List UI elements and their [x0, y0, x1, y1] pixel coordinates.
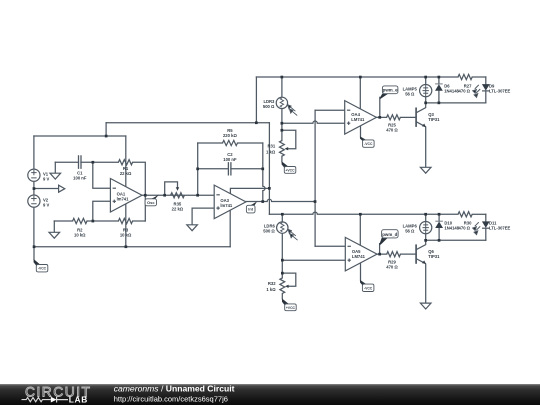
wire R5 row left lead [198, 142, 223, 144]
wire riser x256.4 rail to top rail [255, 77, 257, 123]
logo diode [51, 397, 57, 403]
photoresistor LDR6 [277, 222, 288, 233]
resistor R2 [73, 218, 87, 223]
wire bottom rail y246.7 [34, 246, 230, 248]
diode D6 [435, 84, 443, 91]
lamp LAMP6 [420, 222, 432, 234]
wire D6 bottom lead [438, 91, 440, 103]
wire OA4 output to R25 [376, 116, 386, 118]
op-amp OA5 [345, 237, 377, 271]
wire OA3 output with hop over x269.4 [246, 199, 315, 201]
svg-text:500 Ω: 500 Ω [263, 104, 275, 109]
svg-text:470 Ω: 470 Ω [459, 88, 471, 93]
svg-text:Int: Int [248, 207, 254, 212]
wire R31 bottom stub [281, 156, 283, 162]
wire top rail y77 [256, 76, 458, 78]
wire R31 wiper loop [282, 130, 296, 149]
op-amp OA1 [110, 179, 142, 213]
wire C2 row left [198, 168, 229, 170]
wire feedback left column x197.7 [197, 143, 199, 195]
wire pwm_e tail [379, 97, 381, 117]
flag +VCC at R31 [282, 161, 289, 167]
wire OA5 V+ pin [359, 214, 361, 245]
wire R3 right lead [133, 220, 146, 222]
resistor R3 [118, 218, 132, 223]
wire D6 column [438, 77, 440, 84]
svg-text:TIP31: TIP31 [428, 254, 440, 259]
transistor Q3 [415, 108, 417, 127]
wire OA5 inverting input [315, 245, 345, 247]
wire OA1 inverting input [93, 162, 111, 188]
wire V1-V2 link [33, 181, 35, 195]
wire C1 ground stem [54, 162, 56, 173]
flag -VCC at V2 [34, 259, 41, 266]
svg-text:10 kΩ: 10 kΩ [74, 232, 86, 237]
resistor R5 [223, 140, 238, 145]
svg-text:cameronms / Unnamed Circuit: cameronms / Unnamed Circuit [114, 384, 235, 394]
wire R32 bottom stub [281, 294, 283, 299]
net flag Int [250, 201, 258, 205]
wire OA4 V+ pin [359, 77, 361, 109]
wire lamp3 bottom lead [425, 97, 427, 103]
wire C1 right to R1 [81, 161, 118, 163]
R32 wiper arrowhead [285, 285, 289, 288]
svg-text:pwm_d: pwm_d [382, 232, 397, 237]
svg-text:1N4148: 1N4148 [444, 226, 459, 231]
resistor R25 [387, 115, 401, 120]
net flag pwm_d [379, 238, 388, 245]
svg-text:1 kΩ: 1 kΩ [266, 287, 276, 292]
svg-text:-VCC: -VCC [364, 286, 373, 290]
svg-text:+VCC: +VCC [285, 168, 295, 172]
R31 wiper arrowhead [285, 147, 289, 150]
svg-text:LM741: LM741 [352, 254, 366, 259]
voltage source V2 [28, 195, 40, 207]
wire OA3 V- pin riser x230.2 [229, 210, 231, 247]
logo resistor zigzag [22, 397, 51, 401]
wire lamp6 bottom lead [425, 234, 427, 241]
svg-text:+VCC: +VCC [286, 306, 296, 310]
svg-text:470 Ω: 470 Ω [386, 128, 398, 133]
wire OA4 noninverting rail with hop at x315.1 [282, 121, 345, 123]
resistor R29 [387, 252, 401, 257]
wire D10 column [438, 214, 440, 221]
svg-text:R32: R32 [268, 281, 276, 286]
svg-text:10 kΩ: 10 kΩ [120, 232, 132, 237]
svg-text:220 kΩ: 220 kΩ [223, 133, 237, 138]
wire OA4 V- pin [360, 126, 362, 137]
wire OA1 V+ pin drop x125.8 [125, 136, 127, 186]
wire riser x106.1 to long rail [105, 123, 107, 136]
LDR3 light arrows [290, 107, 297, 116]
resistor R30 [458, 212, 472, 217]
wire lamp6 top lead [425, 214, 427, 221]
wire V1 top to rail [33, 136, 35, 169]
svg-text:LTL-307EE: LTL-307EE [489, 88, 511, 93]
svg-text:470 Ω: 470 Ω [386, 264, 398, 269]
wire V1 drop column x269.4 [268, 123, 270, 215]
wire integrator net vertical x315.1 [314, 110, 316, 246]
wire OA5 output to R29 [377, 253, 387, 255]
wire LDR6 column top [281, 214, 283, 222]
net flag pwm_e [379, 94, 388, 99]
wire R35 wiper loop [165, 182, 178, 195]
wire D11 column [485, 214, 487, 240]
wire R1 right lead and feedback drop x145.3 [133, 162, 146, 221]
wire OA3 plus input [192, 208, 214, 225]
wire long rail y122.7 [106, 122, 269, 124]
svg-text:22 kΩ: 22 kΩ [172, 207, 184, 212]
wire V2 bottom [33, 207, 35, 247]
capacitor C1 [79, 155, 82, 169]
svg-text:100 nF: 100 nF [73, 176, 87, 181]
wire feedback right column x262.8 with hop at y188.4 [263, 143, 265, 202]
wire Q3 emitter down [425, 127, 427, 167]
wire lamp bottom row y102.9 [426, 102, 486, 104]
svg-text:http://circuitlab.com/cetkzs6s: http://circuitlab.com/cetkzs6sq77j6 [114, 395, 228, 404]
wire R25 to Q3 base [400, 116, 416, 118]
wire R2 ground corner [53, 221, 55, 232]
svg-text:LM741: LM741 [351, 117, 365, 122]
svg-text:1 kΩ: 1 kΩ [266, 149, 276, 154]
transistor Q6 [415, 244, 417, 263]
svg-text:-VCC: -VCC [364, 142, 373, 146]
flag +VCC at R32 [282, 299, 289, 305]
wire Q6 emitter down [425, 264, 427, 303]
ground for Q6 emitter [420, 303, 431, 309]
potentiometer R31 [280, 141, 285, 157]
op-amp OA3 [214, 185, 246, 219]
flag -VCC at OA4 [360, 136, 367, 141]
probe arrow at V1-V2 node [59, 185, 65, 192]
wire lamp6 bottom row y240.3 [426, 239, 486, 241]
svg-text:470 Ω: 470 Ω [459, 226, 471, 231]
svg-text:22 kΩ: 22 kΩ [120, 171, 132, 176]
wire D9 column [485, 77, 487, 103]
ground for OA3 plus input [187, 225, 198, 231]
svg-text:lm741: lm741 [220, 203, 233, 208]
svg-text:100 nF: 100 nF [223, 157, 237, 162]
svg-text:500 Ω: 500 Ω [263, 229, 275, 234]
lamp LAMP5 [420, 85, 432, 97]
flag -VCC at OA5 [360, 280, 367, 285]
wire rail y136 from V1 to OA1 supply drop [34, 135, 126, 137]
wire probe stub [34, 188, 59, 190]
wire R2 right to R3 left [87, 220, 118, 222]
svg-text:56 Ω: 56 Ω [405, 92, 415, 97]
svg-text:LTL-307EE: LTL-307EE [489, 226, 511, 231]
svg-text:9 V: 9 V [43, 202, 49, 207]
potentiometer R35 [171, 193, 185, 198]
LED D11 emit arrows [475, 222, 480, 230]
svg-text:9 V: 9 V [43, 176, 49, 181]
wire OA3 V+ pin [230, 188, 269, 193]
diode D10 [435, 222, 443, 229]
wire LDR3 column top [281, 77, 283, 97]
wire pwm_d tail [379, 244, 381, 255]
svg-text:TIP31: TIP31 [428, 117, 440, 122]
wire lower rail y214.3 with hop at x315.1 [269, 212, 458, 214]
capacitor C2 [228, 162, 231, 175]
potentiometer R32 [280, 278, 285, 294]
svg-text:-VCC: -VCC [38, 267, 47, 271]
ground for C1 [50, 173, 61, 179]
R35 wiper arrowhead [176, 187, 179, 191]
resistor R1 [118, 160, 132, 165]
wire OA1 V- pin x125.8 [125, 204, 127, 247]
svg-text:R31: R31 [268, 143, 276, 148]
voltage source V1 [28, 169, 40, 181]
wire top rail right of R27 [472, 76, 486, 78]
wire OA1 noninverting input [93, 201, 111, 221]
op-amp OA4 [345, 101, 377, 135]
LED D9 [482, 84, 490, 91]
wire C2 row right [231, 168, 263, 170]
svg-text:56 Ω: 56 Ω [405, 228, 415, 233]
ground for Q3 emitter [420, 167, 431, 173]
wire C1 left [55, 161, 78, 163]
LED D11 [482, 221, 490, 228]
svg-text:pwm_e: pwm_e [383, 88, 398, 93]
svg-text:LAB: LAB [69, 394, 88, 404]
resistor R27 [458, 74, 472, 79]
net flag Osc [150, 195, 159, 200]
wire lamp3 top lead [425, 77, 427, 85]
wire lower rail right of R30 [472, 213, 486, 215]
wire R29 to Q6 base [400, 253, 416, 255]
photoresistor LDR3 [276, 97, 287, 108]
wire OA5 V- pin [360, 263, 362, 281]
wire R2 left lead [54, 220, 72, 222]
wire OA5 noninverting input [282, 259, 345, 261]
wire OA4 inverting input [315, 109, 345, 111]
wire R32 wiper loop [282, 273, 296, 286]
node junction dots [105, 135, 108, 138]
svg-text:lm741: lm741 [117, 196, 130, 201]
wire R5 right lead [238, 142, 263, 144]
LED D9 emit arrows [475, 85, 480, 93]
wire LDR3 column bottom to R31 [281, 109, 283, 141]
wire LDR6 column bottom to R32 [281, 233, 283, 278]
wire -VCC stub bottom left [33, 247, 35, 260]
svg-text:Osc: Osc [147, 200, 155, 205]
ground for R2 [49, 232, 60, 238]
wire D10 bottom lead [438, 228, 440, 241]
wire OA1 output row y195.25 [142, 194, 214, 196]
LDR6 light arrows [290, 231, 297, 240]
svg-text:1N4148: 1N4148 [444, 88, 459, 93]
